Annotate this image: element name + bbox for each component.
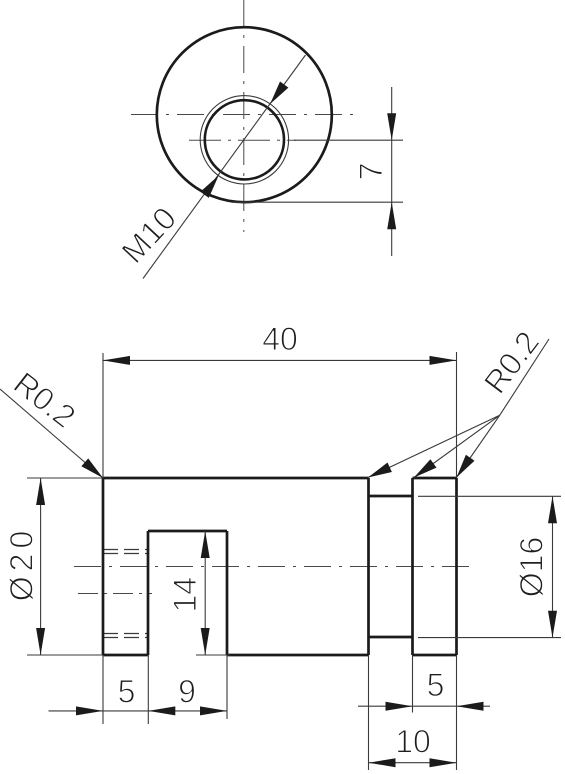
svg-text:5: 5 — [427, 667, 445, 703]
svg-text:Ø20: Ø20 — [3, 526, 39, 601]
svg-text:Ø16: Ø16 — [514, 537, 550, 597]
svg-text:5: 5 — [118, 673, 136, 709]
svg-text:14: 14 — [167, 577, 203, 613]
svg-text:9: 9 — [178, 674, 196, 710]
svg-text:40: 40 — [262, 321, 298, 357]
svg-text:7: 7 — [353, 163, 389, 181]
svg-text:10: 10 — [395, 724, 431, 760]
